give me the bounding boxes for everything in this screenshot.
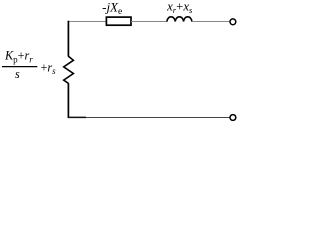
wire box to inductor [131, 21, 167, 23]
wire bottom [86, 117, 230, 119]
label (Kp+rr)/s+rs [2, 48, 56, 80]
terminal bottom right [230, 115, 236, 121]
wire left vertical top [67, 21, 69, 57]
inductor xr+xs [167, 17, 192, 22]
svg-text:-jXe: -jXe [102, 0, 122, 17]
wire top-left segment (corner to box) [68, 21, 107, 23]
svg-text:+rs: +rs [41, 60, 57, 76]
wire left vertical bottom [67, 83, 69, 118]
svg-text:xr+xs: xr+xs [166, 0, 193, 15]
capacitor box -jXe [106, 17, 131, 25]
resistor (Kp+rr)/s+rs [64, 56, 74, 83]
wire inductor to top terminal [192, 21, 230, 23]
terminal top right [230, 19, 236, 25]
wire bottom (corner segment) [68, 116, 86, 118]
svg-text:s: s [15, 67, 20, 81]
svg-text:Kp+rr: Kp+rr [4, 48, 33, 64]
